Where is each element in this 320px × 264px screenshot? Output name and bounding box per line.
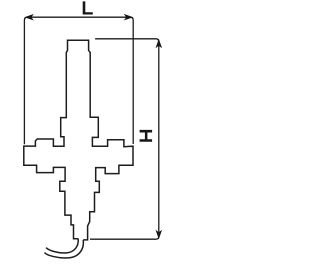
cable outer line xyxy=(45,240,84,258)
arrowhead H top xyxy=(156,39,163,48)
arrowhead L right xyxy=(124,14,133,21)
arrowhead L left xyxy=(24,14,33,21)
dimension H: extension lines + dimension line xyxy=(90,39,159,239)
cable inner line xyxy=(46,239,78,253)
valve body outline xyxy=(24,40,133,240)
label L (drawn as path) xyxy=(83,1,93,14)
arrowhead H bottom xyxy=(156,230,163,239)
dimension L: extension lines + dimension line xyxy=(24,17,133,144)
label H (rotated 90°, drawn as path) xyxy=(140,130,153,142)
